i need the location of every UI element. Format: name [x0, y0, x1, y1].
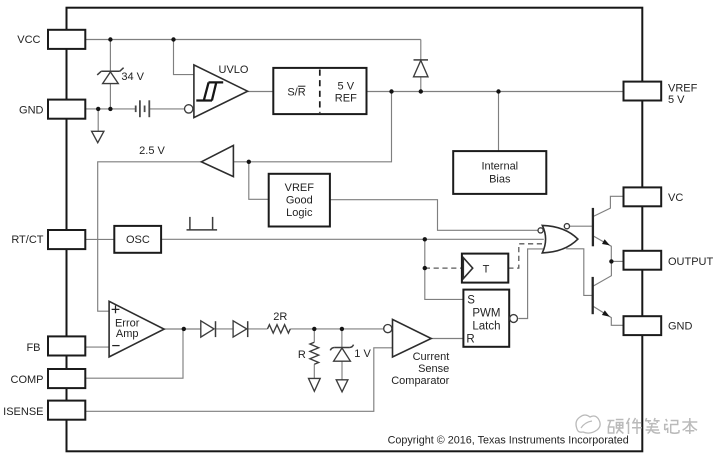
- svg-text:34 V: 34 V: [121, 71, 144, 83]
- svg-text:Logic: Logic: [286, 207, 313, 219]
- svg-text:GND: GND: [668, 320, 693, 332]
- svg-text:Copyright © 2016, Texas Instru: Copyright © 2016, Texas Instruments Inco…: [388, 434, 629, 446]
- svg-text:R: R: [298, 349, 306, 361]
- svg-text:Latch: Latch: [472, 321, 500, 333]
- svg-text:OSC: OSC: [126, 234, 150, 246]
- svg-text:REF: REF: [335, 92, 357, 104]
- svg-text:Internal: Internal: [481, 161, 518, 173]
- svg-text:5 V: 5 V: [338, 80, 355, 92]
- svg-text:RT/CT: RT/CT: [11, 234, 43, 246]
- svg-text:VC: VC: [668, 192, 683, 204]
- svg-text:2.5 V: 2.5 V: [139, 145, 165, 157]
- svg-text:Sense: Sense: [418, 363, 449, 375]
- svg-text:Good: Good: [286, 195, 313, 207]
- svg-text:OUTPUT: OUTPUT: [668, 256, 714, 268]
- svg-text:Bias: Bias: [489, 174, 511, 186]
- svg-text:5 V: 5 V: [668, 94, 685, 106]
- svg-text:1 V: 1 V: [354, 348, 371, 360]
- svg-text:VCC: VCC: [17, 34, 40, 46]
- svg-text:FB: FB: [26, 342, 40, 354]
- svg-text:Amp: Amp: [116, 328, 139, 340]
- svg-text:VREF: VREF: [668, 83, 698, 95]
- svg-text:COMP: COMP: [11, 374, 44, 386]
- svg-text:ISENSE: ISENSE: [3, 406, 43, 418]
- svg-text:S: S: [467, 295, 475, 307]
- svg-text:Current: Current: [413, 351, 450, 363]
- svg-text:PWM: PWM: [472, 308, 500, 320]
- svg-text:T: T: [483, 263, 490, 275]
- svg-text:2R: 2R: [273, 311, 287, 323]
- svg-text:S/R: S/R: [287, 86, 305, 98]
- svg-text:VREF: VREF: [285, 182, 315, 194]
- svg-text:Comparator: Comparator: [391, 375, 449, 387]
- svg-text:R: R: [466, 334, 474, 346]
- svg-text:UVLO: UVLO: [219, 64, 249, 76]
- svg-text:GND: GND: [19, 104, 44, 116]
